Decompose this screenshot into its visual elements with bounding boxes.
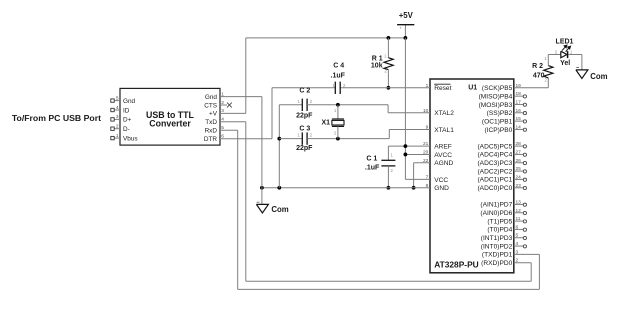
svg-text:(MOSI)PB3: (MOSI)PB3 <box>479 102 513 109</box>
svg-text:Reset: Reset <box>434 85 451 92</box>
svg-text:4: 4 <box>116 105 119 111</box>
svg-text:.1uF: .1uF <box>365 165 380 172</box>
svg-text:XTAL1: XTAL1 <box>434 127 454 134</box>
svg-text:+V: +V <box>209 111 218 118</box>
svg-text:(ADC3)PC3: (ADC3)PC3 <box>477 160 512 167</box>
svg-text:(ADC5)PC5: (ADC5)PC5 <box>477 143 512 150</box>
svg-text:CTS: CTS <box>204 102 217 109</box>
svg-text:470: 470 <box>533 73 545 80</box>
svg-text:(AIN1)PD7: (AIN1)PD7 <box>480 202 512 209</box>
svg-text:C 1: C 1 <box>366 156 377 163</box>
svg-text:10k: 10k <box>371 63 383 70</box>
svg-text:(ADC0)PC0: (ADC0)PC0 <box>477 185 512 192</box>
svg-text:AREF: AREF <box>434 144 452 151</box>
svg-text:22pF: 22pF <box>296 145 313 152</box>
svg-text:AVCC: AVCC <box>434 152 452 159</box>
svg-text:RxD: RxD <box>205 128 218 135</box>
svg-text:DTR: DTR <box>204 136 218 143</box>
svg-text:(ADC2)PC2: (ADC2)PC2 <box>477 168 512 175</box>
svg-text:(ADC1)PC1: (ADC1)PC1 <box>477 177 512 184</box>
svg-text:C 2: C 2 <box>299 87 310 94</box>
svg-text:VCC: VCC <box>434 177 448 184</box>
svg-text:ID: ID <box>123 107 130 114</box>
svg-text:.1uF: .1uF <box>331 73 346 80</box>
svg-text:(ICP)PB0: (ICP)PB0 <box>484 127 512 134</box>
svg-text:Com: Com <box>590 72 607 81</box>
svg-text:Gnd: Gnd <box>205 94 218 101</box>
svg-text:Gnd: Gnd <box>123 98 136 105</box>
svg-text:C 3: C 3 <box>299 126 310 133</box>
svg-text:XTAL2: XTAL2 <box>434 110 454 117</box>
svg-text:(RXD)PD0: (RXD)PD0 <box>481 260 512 267</box>
svg-text:(SCK)PB5: (SCK)PB5 <box>482 85 513 92</box>
svg-text:(AIN0)PD6: (AIN0)PD6 <box>480 210 512 217</box>
svg-text:D-: D- <box>123 126 130 133</box>
svg-text:(INT0)PD2: (INT0)PD2 <box>481 243 513 250</box>
svg-text:22pF: 22pF <box>296 113 313 120</box>
svg-text:(ADC4)PC4: (ADC4)PC4 <box>477 152 512 159</box>
svg-text:2: 2 <box>116 124 119 130</box>
svg-text:3: 3 <box>116 114 119 120</box>
svg-text:(INT1)PD3: (INT1)PD3 <box>481 235 513 242</box>
svg-text:X1: X1 <box>321 119 330 126</box>
svg-text:(OC1)PB1: (OC1)PB1 <box>482 118 513 125</box>
svg-text:5: 5 <box>116 95 119 101</box>
svg-text:LED1: LED1 <box>556 39 574 46</box>
svg-text:U1: U1 <box>468 84 477 91</box>
svg-text:Com: Com <box>271 205 288 214</box>
svg-text:(MISO)PB4: (MISO)PB4 <box>479 93 513 100</box>
svg-text:+5V: +5V <box>399 11 414 20</box>
svg-text:AGND: AGND <box>434 160 453 167</box>
svg-text:To/From PC USB Port: To/From PC USB Port <box>12 113 101 123</box>
svg-text:(TXD)PD1: (TXD)PD1 <box>482 252 513 259</box>
svg-text:Vbus: Vbus <box>123 135 138 142</box>
svg-text:Yel: Yel <box>560 60 570 67</box>
svg-text:C 4: C 4 <box>333 62 344 69</box>
svg-text:(SS)PB2: (SS)PB2 <box>487 110 513 117</box>
svg-text:R 1: R 1 <box>372 55 383 62</box>
svg-text:(T1)PD5: (T1)PD5 <box>487 218 512 225</box>
svg-text:R 2: R 2 <box>532 63 543 70</box>
svg-text:GND: GND <box>434 185 449 192</box>
svg-text:TxD: TxD <box>205 119 217 126</box>
svg-text:1: 1 <box>116 133 119 139</box>
svg-text:(T0)PD4: (T0)PD4 <box>487 227 512 234</box>
svg-text:Converter: Converter <box>149 119 191 129</box>
svg-text:D+: D+ <box>123 117 132 124</box>
svg-text:AT328P-PU: AT328P-PU <box>434 260 479 270</box>
